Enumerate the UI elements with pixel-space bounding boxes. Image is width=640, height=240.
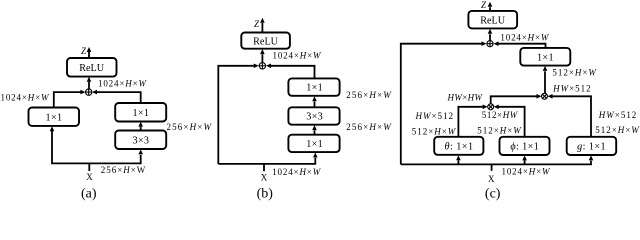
- caption (c): [485, 187, 501, 202]
- conv 3x3 box (a): [115, 131, 166, 150]
- label 256xHxW upper (b): [346, 90, 392, 100]
- arrow bus to theta (c): [456, 155, 461, 164]
- svg-text:ReLU: ReLU: [480, 16, 506, 27]
- arrow matmul2 to 1x1 (c): [543, 66, 548, 93]
- arrow add to ReLU (b): [260, 49, 265, 63]
- svg-text:Z: Z: [254, 19, 260, 29]
- label HWxHW (c): [447, 92, 484, 102]
- label 1024xHxW left (a): [1, 93, 51, 103]
- label 1024xHxW upper (c): [500, 32, 550, 42]
- skip connection wire (b): [218, 64, 258, 164]
- conv 1x1 box top (b): [288, 78, 339, 95]
- svg-text:512×H×W: 512×H×W: [477, 126, 522, 136]
- svg-text:1×1: 1×1: [46, 112, 63, 123]
- conv g box (c): [567, 137, 617, 155]
- label 256xHxW right (a): [167, 122, 213, 132]
- svg-text:1×1: 1×1: [306, 139, 323, 150]
- label 1024xHxW bottom (b): [272, 167, 322, 177]
- label 1024xHxW upper (a): [98, 78, 148, 88]
- label 512xHxW middle (c): [477, 126, 522, 136]
- conv 1x1 box Wz (c): [520, 48, 570, 66]
- wire right 1x1 to add (a): [92, 90, 141, 103]
- output arrow Z (c): [488, 2, 493, 11]
- svg-text:1024×H×W: 1024×H×W: [502, 166, 552, 176]
- label 256xHxW lower (b): [346, 122, 392, 132]
- output arrow Z (b): [260, 18, 265, 33]
- svg-text:HW×512: HW×512: [415, 111, 454, 121]
- svg-text:X: X: [86, 172, 93, 182]
- add symbol (b): [259, 63, 265, 69]
- conv phi box (c): [500, 137, 550, 155]
- output arrow Z (a): [87, 47, 92, 58]
- output label Z (a): [81, 46, 87, 56]
- svg-text:1×1: 1×1: [306, 83, 323, 94]
- svg-text:X: X: [488, 174, 495, 184]
- conv 1x1 box left (a): [29, 108, 80, 126]
- output label Z (b): [254, 19, 260, 29]
- svg-text:3×3: 3×3: [306, 112, 323, 123]
- svg-text:ϕ: 1×1: ϕ: 1×1: [510, 142, 539, 153]
- arrow add to ReLU (a): [87, 77, 92, 89]
- svg-text:θ: 1×1: θ: 1×1: [445, 141, 474, 152]
- input tick X (b): [263, 164, 265, 171]
- label 1024xHxW upper (b): [273, 51, 323, 61]
- svg-text:1024×H×W: 1024×H×W: [272, 167, 322, 177]
- svg-text:X: X: [261, 173, 268, 183]
- label 1024xHxW bottom (c): [502, 166, 552, 176]
- svg-text:3×3: 3×3: [132, 135, 149, 146]
- svg-text:Z: Z: [81, 46, 87, 56]
- ReLU box (b): [241, 33, 290, 49]
- ReLU box (c): [468, 11, 517, 29]
- conv 1x1 box bottom (b): [288, 135, 339, 152]
- input label X (b): [261, 173, 268, 183]
- svg-text:512×H×W: 512×H×W: [595, 125, 640, 135]
- matmul symbol 1 (c): [488, 104, 494, 110]
- matmul symbol 2 (c): [542, 93, 548, 99]
- input label X (c): [488, 174, 495, 184]
- input tick X (a): [88, 163, 90, 171]
- wire 1x1 to add (c): [494, 41, 546, 48]
- conv theta box (c): [434, 137, 483, 155]
- add symbol (c): [487, 41, 493, 47]
- input tick X (c): [491, 164, 493, 170]
- svg-text:HW×512: HW×512: [598, 110, 637, 120]
- svg-text:1024×H×W: 1024×H×W: [500, 32, 550, 42]
- svg-text:(a): (a): [81, 187, 97, 201]
- ReLU box (a): [67, 58, 117, 77]
- input bus wire (a): [50, 126, 143, 163]
- svg-text:1024×H×W: 1024×H×W: [273, 51, 323, 61]
- label HWx512 right (c): [598, 110, 637, 120]
- svg-text:512×H×W: 512×H×W: [552, 68, 597, 78]
- svg-text:Z: Z: [481, 0, 487, 10]
- caption (a): [81, 187, 97, 202]
- label HWx512 left (c): [415, 111, 454, 121]
- conv 3x3 box (b): [288, 107, 339, 124]
- arrow bottom 1x1 to 3x3 (b): [312, 125, 317, 135]
- svg-text:256×H×W: 256×H×W: [167, 122, 213, 132]
- label 512xHxW right (c): [595, 125, 640, 135]
- svg-text:1×1: 1×1: [537, 52, 554, 63]
- svg-text:ReLU: ReLU: [79, 63, 105, 74]
- conv 1x1 box right (a): [115, 103, 166, 122]
- skip connection wire (c): [401, 41, 487, 164]
- svg-text:1024×H×W: 1024×H×W: [1, 93, 51, 103]
- input bus wire (b): [218, 153, 317, 164]
- svg-text:(b): (b): [257, 187, 274, 201]
- wire theta to matmul1 (c): [458, 105, 487, 137]
- input label X (a): [86, 172, 93, 182]
- label 512xHW (c): [482, 110, 519, 120]
- input bus wire (c): [401, 155, 594, 164]
- svg-text:g: 1×1: g: 1×1: [577, 142, 606, 153]
- svg-text:256×H×W: 256×H×W: [346, 122, 392, 132]
- svg-text:512×H×W: 512×H×W: [412, 127, 457, 137]
- svg-text:1×1: 1×1: [132, 108, 149, 119]
- label 512xHxW under 1x1 (c): [552, 68, 597, 78]
- svg-text:ReLU: ReLU: [253, 36, 279, 47]
- svg-text:HW×HW: HW×HW: [447, 92, 484, 102]
- arrow 3x3 to 1x1 (a): [138, 122, 143, 131]
- arrow 3x3 to top 1x1 (b): [312, 96, 317, 107]
- svg-text:256×H×W: 256×H×W: [346, 90, 392, 100]
- label 512xHxW left (c): [412, 127, 457, 137]
- add symbol (a): [86, 89, 92, 95]
- svg-text:1024×H×W: 1024×H×W: [98, 78, 148, 88]
- label 256xHxW bottom (a): [101, 165, 146, 175]
- svg-text:512×HW: 512×HW: [482, 110, 519, 120]
- caption (b): [257, 187, 274, 202]
- output label Z (c): [481, 0, 487, 10]
- svg-text:HW×512: HW×512: [552, 83, 591, 93]
- wire g to matmul2 (c): [548, 94, 592, 137]
- label HWx512 near matmul2 (c): [552, 83, 591, 93]
- arrow add to ReLU (c): [488, 29, 493, 41]
- wire phi to matmul1 (c): [494, 105, 525, 137]
- svg-text:(c): (c): [485, 187, 501, 201]
- arrow bus to phi (c): [522, 155, 527, 164]
- wire top 1x1 to add (b): [266, 64, 315, 79]
- wire left 1x1 to add (a): [54, 90, 86, 108]
- svg-text:256×H×W: 256×H×W: [101, 165, 146, 175]
- wire matmul1 to matmul2 (c): [491, 94, 542, 104]
